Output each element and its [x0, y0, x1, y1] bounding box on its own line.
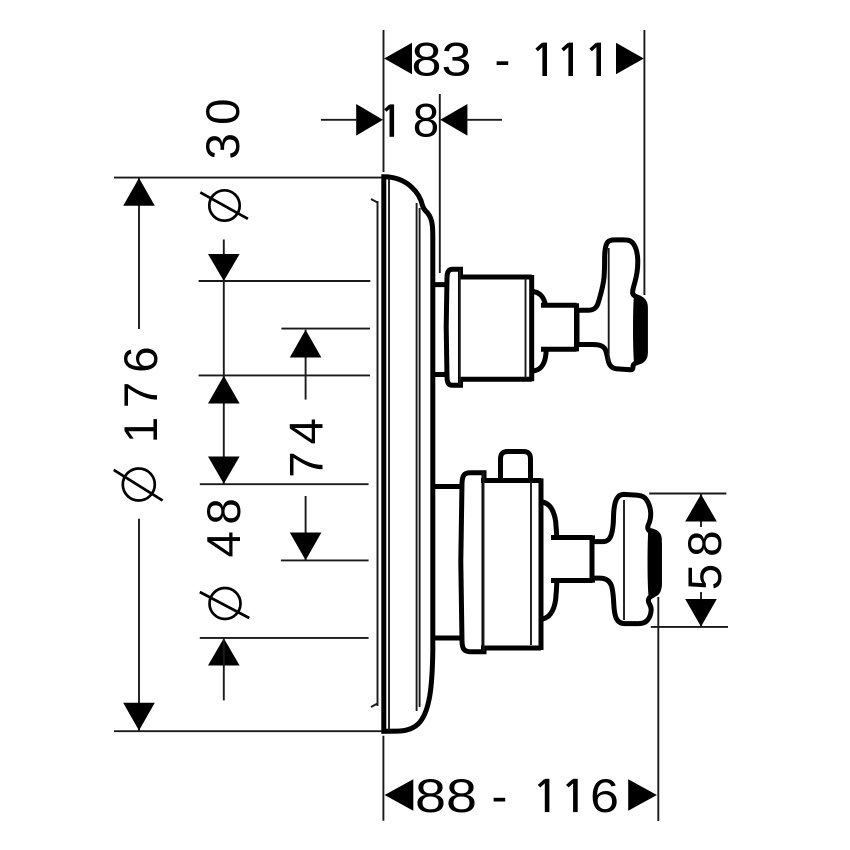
extension line bottom-left (88-116, x=383.4): [382, 736, 384, 821]
reference line 58 bottom (y=626.9): [651, 626, 728, 628]
reference line A (plate top, y=177.6): [114, 177, 384, 179]
svg-text:6: 6: [590, 770, 619, 823]
wall tick top: [371, 199, 378, 203]
arrow 74 bottom (down): [290, 533, 322, 561]
lower sleeve (d48) top edge: [431, 484, 460, 489]
diameter symbol for 30: [200, 190, 248, 220]
lower dome cap: [543, 502, 558, 619]
dimension line 176 (x=139): [138, 178, 140, 329]
arrow 30 top (down at line B): [208, 254, 240, 281]
safety stop button: [501, 452, 531, 484]
svg-text:176: 176: [115, 338, 168, 444]
arrow 176 top: [123, 178, 155, 206]
upper cartridge flange: [446, 269, 460, 385]
upper handle: [577, 240, 645, 370]
lower cartridge flange: [461, 473, 484, 652]
upper handle front boss: [633, 296, 647, 363]
label 83 - 111: [412, 34, 511, 87]
lower handle: [592, 494, 659, 623]
arrow 18 left with tail: [321, 119, 356, 121]
svg-text:58: 58: [679, 523, 732, 590]
dimension line 74 (x=305.6): [305, 330, 307, 400]
escutcheon plate outline: [384, 177, 433, 732]
arrow 30 bottom (up at line C): [208, 376, 240, 404]
svg-text:74: 74: [281, 411, 334, 478]
lower stem: [551, 535, 593, 582]
lower body step line: [483, 473, 485, 652]
upper handle crease: [608, 248, 610, 362]
reference line E (48 bottom, y=637.9): [200, 637, 369, 639]
label 88 - 116: [415, 770, 619, 823]
diameter symbol for 176: [114, 469, 163, 501]
reference line 58 top (y=493.5): [649, 493, 726, 495]
dimension line 58 (x=701): [700, 494, 702, 527]
lower body front crease: [530, 481, 532, 646]
svg-text:48: 48: [198, 492, 251, 558]
extension line 18 right (x=439.8): [439, 94, 441, 273]
svg-text:30: 30: [197, 90, 250, 159]
arrow 58 bottom (down): [685, 599, 717, 627]
arrow 18 right with tail: [467, 119, 502, 121]
arrow 88-116 left: [385, 779, 414, 811]
svg-text:8: 8: [413, 95, 439, 148]
lower handle crease: [623, 500, 625, 620]
extension line top-right (83-111, x=644.4): [643, 30, 645, 295]
dimension line 30/48 vertical (x=223.8): [223, 240, 225, 484]
upper cartridge body: [458, 275, 532, 381]
reference line C (30 bottom, y=375.4): [199, 374, 370, 376]
upper stem: [541, 303, 577, 351]
extension line top-left (83-111 / 18 shared, x=383.5): [383, 30, 385, 172]
upper sleeve (d30) bottom edge: [431, 372, 448, 377]
label 18: [385, 104, 391, 136]
plate rim inner line: [388, 178, 390, 731]
arrow 74 top (up): [290, 330, 322, 358]
arrow 83-111 left: [384, 43, 412, 75]
diameter symbol for 48: [200, 588, 249, 619]
arrow 58 top (up): [685, 494, 717, 521]
upper body front crease: [525, 278, 527, 378]
reference line plate bottom (y=731.2): [114, 730, 383, 732]
extension line bottom-right (88-116, x=658.3): [657, 597, 659, 821]
lower sleeve (d48) bottom edge: [431, 636, 460, 641]
wall tick bottom: [371, 704, 378, 708]
arrow 48 bottom (up at line E): [208, 638, 240, 665]
arrow 83-111 right: [616, 43, 644, 75]
plate dome crease line 2: [419, 208, 421, 707]
reference line 74 bottom (y=560.4): [281, 559, 369, 561]
upper body step line: [459, 270, 461, 385]
lower handle front boss: [648, 528, 662, 596]
svg-text:88: 88: [415, 770, 477, 823]
reference line 74 top (y=328.6): [281, 328, 370, 330]
lower cartridge body: [481, 478, 541, 650]
svg-text:83: 83: [412, 34, 472, 87]
arrow 176 bottom: [123, 703, 155, 731]
dimension line 48 lower leg: [223, 638, 225, 700]
upper dome cap: [533, 292, 547, 372]
plate dome crease line 1: [416, 203, 418, 711]
svg-text:-: -: [495, 34, 511, 87]
arrow 48 top (down at line D): [208, 457, 240, 484]
plate back line (wall side): [377, 201, 379, 706]
reference line D (48 top, y=484.2): [200, 483, 369, 485]
svg-text:-: -: [492, 770, 508, 823]
reference line B (30 top, y=281): [199, 280, 371, 282]
arrow 88-116 right: [628, 779, 657, 811]
upper sleeve (d30) top edge: [431, 282, 448, 287]
